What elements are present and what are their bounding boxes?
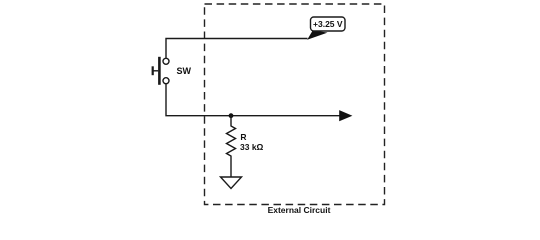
- svg-text:33 kΩ: 33 kΩ: [240, 142, 264, 152]
- svg-text:R: R: [240, 132, 246, 142]
- svg-text:External Circuit: External Circuit: [268, 205, 331, 214]
- resistor R: [227, 116, 264, 177]
- switch SW: [153, 57, 192, 85]
- external circuit boundary: [205, 4, 385, 205]
- ground: [221, 177, 242, 189]
- arrow output: [339, 110, 352, 121]
- svg-text:+3.25 V: +3.25 V: [313, 19, 343, 29]
- wire top from switch to callout: [166, 39, 308, 59]
- junction node: [229, 113, 234, 118]
- svg-text:SW: SW: [177, 66, 192, 76]
- wire from switch to output: [166, 84, 340, 116]
- node +3.25 V callout: [307, 17, 345, 40]
